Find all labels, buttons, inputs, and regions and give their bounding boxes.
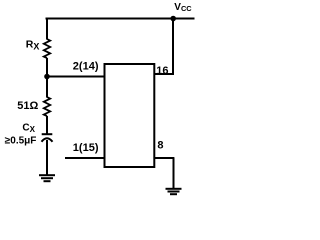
svg-text:8: 8 xyxy=(157,140,163,152)
capacitor CX xyxy=(42,134,53,142)
svg-text:CX: CX xyxy=(22,123,35,135)
wire 51 ohm to capacitor CX xyxy=(46,116,48,134)
wire left drop from rail to RX xyxy=(46,18,48,40)
wire capacitor to ground xyxy=(46,140,48,175)
svg-text:≥0.5μF: ≥0.5μF xyxy=(5,135,37,146)
IC U1 box xyxy=(105,64,155,167)
wire riser pin 16 to Vcc rail xyxy=(172,19,174,75)
wire pin 8 drop to ground xyxy=(173,158,175,189)
svg-text:2(14): 2(14) xyxy=(73,60,99,72)
resistor 51 ohm xyxy=(44,97,50,116)
node Vcc junction dot xyxy=(170,16,176,22)
top Vcc rail wire xyxy=(46,18,195,20)
wire RX to node A xyxy=(46,58,48,77)
pin 16 wire xyxy=(155,73,175,75)
ground (left, below CX) xyxy=(39,175,55,181)
pin 1(15) wire xyxy=(65,157,105,159)
resistor RX xyxy=(44,39,50,58)
svg-text:51Ω: 51Ω xyxy=(17,100,38,112)
svg-text:16: 16 xyxy=(156,65,168,77)
wire node A to 51 ohm resistor xyxy=(46,77,48,98)
pin 8 wire xyxy=(155,157,175,159)
ground (right, pin 8) xyxy=(166,189,182,194)
svg-text:RX: RX xyxy=(26,39,40,52)
svg-text:1(15): 1(15) xyxy=(73,142,99,154)
wire node A to pin 2(14) xyxy=(47,76,105,78)
node A junction dot xyxy=(44,74,50,80)
svg-text:VCC: VCC xyxy=(174,2,192,13)
